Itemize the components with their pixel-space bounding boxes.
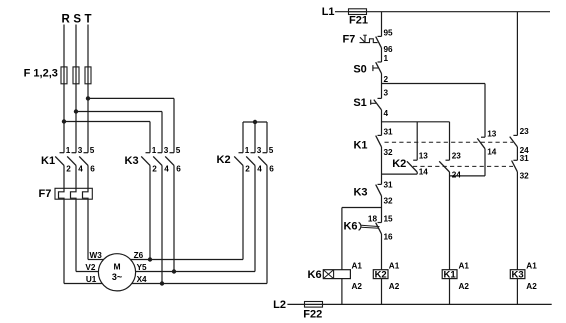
svg-text:Z6: Z6 — [134, 251, 144, 260]
svg-text:U1: U1 — [86, 275, 97, 284]
svg-text:S: S — [73, 14, 81, 26]
svg-text:1: 1 — [384, 54, 389, 63]
svg-text:95: 95 — [384, 29, 394, 38]
svg-text:F7: F7 — [39, 188, 52, 200]
svg-text:13: 13 — [419, 152, 429, 161]
svg-text:31: 31 — [384, 127, 394, 136]
svg-text:1: 1 — [245, 146, 250, 155]
svg-text:F 1,2,3: F 1,2,3 — [24, 68, 58, 80]
svg-text:16: 16 — [384, 233, 394, 242]
svg-text:V2: V2 — [85, 263, 95, 272]
svg-text:14: 14 — [419, 167, 429, 176]
svg-text:2: 2 — [384, 75, 389, 84]
svg-text:F7: F7 — [342, 34, 355, 46]
svg-text:23: 23 — [452, 152, 462, 161]
svg-text:14: 14 — [487, 148, 497, 157]
svg-text:3: 3 — [78, 146, 83, 155]
svg-text:13: 13 — [487, 129, 497, 138]
svg-text:3~: 3~ — [112, 272, 122, 282]
svg-text:18: 18 — [368, 215, 378, 224]
svg-text:K3: K3 — [353, 187, 367, 199]
svg-text:M: M — [113, 261, 120, 271]
svg-text:2: 2 — [245, 165, 250, 174]
svg-text:F22: F22 — [303, 309, 322, 321]
svg-text:X4: X4 — [137, 275, 147, 284]
svg-text:L2: L2 — [273, 299, 286, 311]
svg-text:2: 2 — [66, 165, 71, 174]
svg-text:A2: A2 — [389, 282, 400, 291]
svg-text:A1: A1 — [459, 261, 470, 270]
svg-text:23: 23 — [520, 127, 530, 136]
svg-text:1: 1 — [152, 146, 157, 155]
svg-text:K1: K1 — [444, 270, 457, 281]
svg-text:4: 4 — [257, 165, 262, 174]
svg-text:2: 2 — [152, 165, 157, 174]
svg-text:32: 32 — [520, 172, 530, 181]
svg-text:4: 4 — [164, 165, 169, 174]
svg-text:6: 6 — [176, 165, 181, 174]
svg-text:A1: A1 — [352, 261, 363, 270]
svg-text:W3: W3 — [90, 251, 103, 260]
svg-text:4: 4 — [78, 165, 83, 174]
svg-text:S1: S1 — [353, 97, 366, 109]
svg-text:5: 5 — [269, 146, 274, 155]
svg-text:A1: A1 — [389, 261, 400, 270]
svg-text:A2: A2 — [352, 282, 363, 291]
svg-text:32: 32 — [384, 148, 394, 157]
svg-text:T: T — [84, 14, 91, 26]
svg-text:K6: K6 — [343, 220, 357, 232]
svg-text:L1: L1 — [322, 6, 335, 18]
svg-text:K2: K2 — [392, 158, 406, 170]
svg-text:K1: K1 — [353, 140, 367, 152]
svg-text:32: 32 — [384, 196, 394, 205]
svg-text:K2: K2 — [375, 270, 387, 281]
svg-text:4: 4 — [384, 109, 389, 118]
svg-text:Y5: Y5 — [137, 263, 147, 272]
svg-text:5: 5 — [90, 146, 95, 155]
svg-text:F21: F21 — [349, 15, 368, 27]
svg-text:K2: K2 — [217, 154, 231, 166]
svg-text:R: R — [62, 14, 71, 26]
svg-text:3: 3 — [257, 146, 262, 155]
svg-text:K6: K6 — [308, 269, 322, 281]
svg-text:A1: A1 — [526, 261, 537, 270]
svg-text:K3: K3 — [125, 155, 139, 167]
svg-text:15: 15 — [384, 215, 394, 224]
svg-text:24: 24 — [452, 171, 462, 180]
svg-text:S0: S0 — [353, 63, 366, 75]
svg-text:5: 5 — [176, 146, 181, 155]
svg-text:31: 31 — [520, 154, 530, 163]
svg-text:A2: A2 — [526, 282, 537, 291]
svg-text:6: 6 — [269, 165, 274, 174]
svg-text:31: 31 — [384, 181, 394, 190]
svg-text:A2: A2 — [459, 282, 470, 291]
svg-text:3: 3 — [384, 89, 389, 98]
svg-text:1: 1 — [66, 146, 71, 155]
svg-text:96: 96 — [384, 45, 394, 54]
svg-text:K3: K3 — [512, 270, 524, 281]
svg-text:3: 3 — [164, 146, 169, 155]
svg-text:6: 6 — [90, 165, 95, 174]
svg-text:K1: K1 — [41, 155, 55, 167]
